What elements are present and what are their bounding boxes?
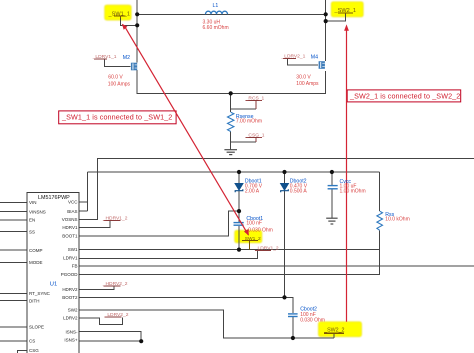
svg-text:BOOT2: BOOT2 [62,295,78,300]
svg-text:CS: CS [29,339,35,344]
svg-text:_SW1_1 is connected to _SW1_2: _SW1_1 is connected to _SW1_2 [61,112,172,121]
svg-text:VIN: VIN [29,200,37,205]
svg-text:_SW2_2: _SW2_2 [323,327,344,333]
svg-text:SW2: SW2 [68,307,78,312]
svg-text:LDRV1: LDRV1 [63,255,78,260]
svg-text:_SW2_1: _SW2_1 [334,8,356,14]
svg-text:100 nF: 100 nF [246,221,262,227]
svg-text:_LDRV1_1: _LDRV1_1 [92,54,117,60]
svg-text:2.00 A: 2.00 A [245,189,260,195]
svg-text:VOSNS: VOSNS [62,217,78,222]
svg-text:1.00 mOhm: 1.00 mOhm [340,188,366,194]
svg-text:_HDRV2_2: _HDRV2_2 [102,281,128,287]
svg-text:6.60 mOhm: 6.60 mOhm [203,25,229,31]
svg-text:MODE: MODE [29,260,43,265]
svg-text:_SW2_1 is connected to _SW2_2: _SW2_1 is connected to _SW2_2 [349,91,460,100]
svg-text:30.0 V: 30.0 V [296,75,311,81]
svg-text:0.500 A: 0.500 A [290,189,308,195]
svg-text:VCC: VCC [68,200,78,205]
svg-text:7.00 mOhm: 7.00 mOhm [236,119,262,125]
svg-text:100 Amps: 100 Amps [108,82,131,88]
svg-text:M4: M4 [311,55,318,61]
svg-text:0.030 Ohm: 0.030 Ohm [300,318,325,324]
svg-text:ISNS+: ISNS+ [64,338,78,343]
svg-text:_LDRV2_1: _LDRV2_1 [281,54,306,60]
svg-text:M2: M2 [123,55,130,61]
svg-text:10.0 kOhm: 10.0 kOhm [385,216,409,222]
svg-text:60.0 V: 60.0 V [108,75,123,81]
svg-text:100 Amps: 100 Amps [296,81,319,87]
svg-text:DITH: DITH [29,298,40,303]
svg-text:SLOPE: SLOPE [29,325,44,330]
svg-text:_CSG_1: _CSG_1 [245,132,265,138]
svg-text:SS: SS [29,229,35,234]
svg-text:COMP: COMP [29,248,43,253]
svg-text:_SW1_2: _SW1_2 [241,236,261,242]
svg-text:HDRV1: HDRV1 [62,225,78,230]
svg-text:LM5176PWP: LM5176PWP [38,195,70,201]
svg-text:CSG: CSG [29,348,39,353]
svg-text:BIAS: BIAS [67,209,77,214]
svg-text:VINSNS: VINSNS [29,209,46,214]
svg-text:EN: EN [29,217,35,222]
svg-text:U1: U1 [50,281,57,287]
svg-text:0.030 Ohm: 0.030 Ohm [248,227,273,233]
svg-text:FB: FB [72,264,78,269]
svg-text:_RCS_1: _RCS_1 [245,96,265,102]
svg-text:SW1: SW1 [68,247,78,252]
svg-text:ISNS-: ISNS- [65,329,78,334]
svg-text:BOOT1: BOOT1 [62,233,78,238]
svg-text:LDRV2: LDRV2 [63,316,78,321]
svg-text:_SW1_1: _SW1_1 [108,11,130,17]
svg-text:PGOOD: PGOOD [61,272,79,277]
svg-text:RT_SYNC: RT_SYNC [29,291,51,296]
svg-text:HDRV2: HDRV2 [62,287,78,292]
svg-text:_HDRV1_2: _HDRV1_2 [102,215,128,221]
svg-text:_LDRV1_2: _LDRV1_2 [254,245,279,251]
svg-text:L1: L1 [213,3,219,9]
svg-text:_LDRV2_2: _LDRV2_2 [104,312,129,318]
